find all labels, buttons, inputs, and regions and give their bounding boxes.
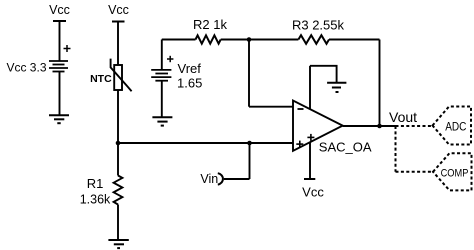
battery B2 Vref 1.65 <box>151 70 171 81</box>
svg-text:1.65: 1.65 <box>177 76 202 91</box>
op-amp U1 SAC_OA <box>293 101 343 151</box>
Vin connector <box>218 143 250 185</box>
svg-text:Vout: Vout <box>389 109 417 125</box>
dashed connector to ADC/COMP <box>396 126 434 172</box>
ground wire (op-amp top) <box>310 66 337 83</box>
junction R2/R3/inverting <box>247 37 252 42</box>
resistor R3 2.55k <box>298 35 329 44</box>
wire battery to ground <box>59 72 61 116</box>
wire R3 to feedback corner <box>329 40 380 127</box>
output junction dot <box>377 124 382 129</box>
svg-text:Vcc: Vcc <box>49 3 70 17</box>
svg-text:SAC_OA: SAC_OA <box>319 140 372 155</box>
svg-text:Vref: Vref <box>178 61 202 76</box>
svg-text:R1: R1 <box>87 176 104 191</box>
svg-text:1.36k: 1.36k <box>80 193 111 207</box>
Vcc pin (op-amp bottom) <box>304 178 315 180</box>
resistor R2 1k <box>196 35 221 43</box>
output wire <box>343 125 396 127</box>
ground (battery) <box>49 115 69 123</box>
svg-text:R2 1k: R2 1k <box>193 17 227 32</box>
power rail Vcc (NTC branch) <box>112 22 125 66</box>
op-amp supply pin line <box>309 66 311 179</box>
svg-text:NTC: NTC <box>90 73 112 85</box>
wire junction to inverting input <box>249 40 293 107</box>
svg-text:Vcc 3.3: Vcc 3.3 <box>6 61 46 75</box>
ground (op-amp) <box>327 83 346 92</box>
wire Vref battery to ground <box>161 81 163 118</box>
ADC block <box>433 107 472 145</box>
resistor R1 <box>114 143 123 240</box>
ground (R1) <box>108 240 128 248</box>
battery B1 Vcc 3.3 <box>49 61 68 72</box>
op-amp plus label 2 <box>307 134 314 141</box>
ground (Vref) <box>152 117 172 125</box>
node A junction <box>116 141 121 146</box>
COMP block <box>433 153 472 190</box>
svg-text:Vcc: Vcc <box>302 185 324 200</box>
op-amp minus label <box>298 108 304 110</box>
svg-text:R3 2.55k: R3 2.55k <box>292 18 345 33</box>
op-amp plus label 1 <box>296 141 303 148</box>
svg-text:Vcc: Vcc <box>108 3 129 17</box>
junction dot (Vin / + input) <box>247 141 252 146</box>
wire node A to op-amp + input <box>118 142 293 144</box>
power rail Vcc (battery branch) <box>53 21 66 61</box>
wire NTC to node A <box>117 90 119 143</box>
svg-text:Vin: Vin <box>200 172 218 186</box>
Vref branch wire <box>162 40 196 70</box>
svg-text:COMP: COMP <box>441 167 469 179</box>
wire R2 to junction <box>221 39 299 41</box>
thermistor NTC <box>111 59 132 92</box>
svg-text:ADC: ADC <box>445 119 466 133</box>
